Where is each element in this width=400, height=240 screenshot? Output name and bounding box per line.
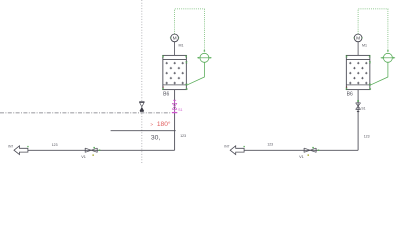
svg-text:>: > [150, 122, 153, 127]
svg-text:IN7: IN7 [224, 144, 229, 148]
svg-text:123: 123 [267, 143, 273, 147]
svg-text:B6: B6 [347, 92, 353, 98]
svg-text:S1: S1 [361, 107, 365, 111]
svg-text:123: 123 [364, 135, 370, 139]
svg-text:30,: 30, [151, 135, 161, 142]
svg-text:S1: S1 [178, 108, 182, 112]
svg-text:M: M [356, 36, 360, 42]
svg-text:180°: 180° [157, 120, 171, 128]
svg-text:V1: V1 [299, 155, 304, 159]
svg-text:123: 123 [180, 134, 186, 138]
svg-text:IN7: IN7 [8, 144, 13, 148]
svg-text:M: M [173, 36, 177, 42]
svg-text:M1: M1 [179, 44, 184, 48]
svg-text:123: 123 [52, 143, 58, 147]
svg-text:M1: M1 [362, 44, 367, 48]
svg-text:V1: V1 [81, 155, 86, 159]
svg-text:B6: B6 [163, 92, 169, 98]
